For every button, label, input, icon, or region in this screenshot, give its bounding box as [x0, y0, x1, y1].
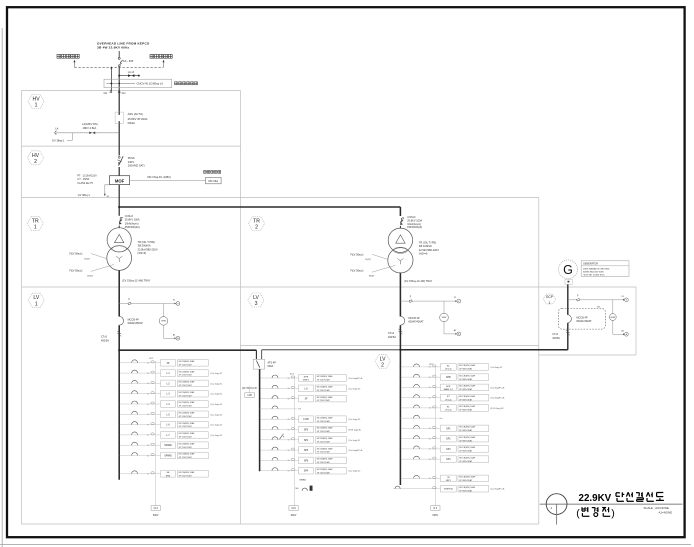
svg-text:MCCB(MS) 30AF: MCCB(MS) 30AF	[459, 476, 476, 479]
meter group GCP	[568, 295, 629, 336]
feeder LV2L row 6	[259, 426, 362, 433]
svg-text:DS&A: DS&A	[128, 121, 136, 125]
svg-text:4P 220V/15AT: 4P 220V/15AT	[179, 405, 193, 408]
svg-text:30: 30	[429, 377, 431, 379]
svg-text:F&V 38sq-1: F&V 38sq-1	[351, 253, 365, 256]
svg-text:2: 2	[381, 363, 384, 369]
svg-text:MCCB(MS) 30AF: MCCB(MS) 30AF	[179, 453, 196, 456]
svg-text:MCCB(MS) 30AF: MCCB(MS) 30AF	[317, 427, 334, 430]
feeder LV2L row 10	[259, 467, 361, 474]
svg-text:WHM: WHM	[611, 317, 616, 319]
section label TR1	[27, 216, 43, 230]
svg-text:30: 30	[429, 438, 431, 440]
svg-text:(F14 4sq) 4C: (F14 4sq) 4C	[349, 430, 362, 432]
svg-text:MCCB(MS) 30AF: MCCB(MS) 30AF	[317, 437, 334, 440]
svg-text:4P 220V/15AT: 4P 220V/15AT	[179, 374, 193, 377]
svg-text:30: 30	[429, 478, 431, 480]
fuse PF&S	[118, 156, 145, 168]
svg-text:E(1)T: E(1)T	[85, 258, 91, 260]
svg-text:MCCB(MS) 50AF: MCCB(MS) 50AF	[459, 456, 476, 459]
svg-text:(Cu 8sq) 4C: (Cu 8sq) 4C	[491, 367, 503, 369]
label TR2 secondary cable	[404, 280, 433, 283]
feeder LV2L row 8	[259, 447, 364, 454]
svg-text:MCCB(MS) 50AF: MCCB(MS) 50AF	[459, 374, 476, 377]
ground GV 38sq-1 HV1	[52, 133, 72, 143]
section label LV1	[28, 293, 44, 307]
label metering panel korean	[204, 171, 221, 174]
svg-text:25.8KV 100A: 25.8KV 100A	[125, 219, 140, 222]
svg-text:(Cu 4sq) 4C: (Cu 4sq) 4C	[349, 471, 361, 473]
svg-text:MCCB(MS) 30AF: MCCB(MS) 30AF	[179, 391, 196, 394]
svg-text:4P 380V/30AT: 4P 380V/30AT	[459, 388, 473, 391]
svg-text:(RB): (RB)	[166, 475, 171, 477]
breaker MCCB GCP	[558, 306, 605, 329]
svg-text:400/5A: 400/5A	[552, 337, 560, 340]
svg-text:MCCB 4P: MCCB 4P	[576, 316, 587, 319]
feeder LV2R row 6	[400, 415, 442, 418]
feeder LV2L row 7	[259, 437, 361, 444]
svg-text:LVB: LVB	[248, 395, 253, 397]
title text 22.9KV	[579, 493, 612, 504]
svg-text:(P-14): (P-14)	[445, 410, 451, 412]
svg-text:(F1.6 8sq) 4C: (F1.6 8sq) 4C	[491, 408, 505, 410]
svg-text:4P 380V/30AT: 4P 380V/30AT	[459, 368, 473, 371]
svg-text:EPB: EPB	[304, 376, 309, 378]
svg-text:30: 30	[429, 367, 431, 369]
svg-text:400/5A: 400/5A	[101, 339, 109, 342]
section label LV2	[375, 354, 390, 368]
CT LV3	[388, 329, 402, 339]
svg-text:2: 2	[34, 159, 37, 165]
svg-text:(Cu 4sq) 4C: (Cu 4sq) 4C	[211, 394, 223, 396]
title text hangul dansungyeolsundo	[616, 492, 664, 501]
svg-text:MCCB 4P: MCCB 4P	[128, 318, 139, 321]
CT LV1	[101, 331, 121, 343]
section label HV1	[28, 95, 44, 109]
svg-text:WHM: WHM	[442, 317, 447, 319]
svg-text:4P 380V/30AT: 4P 380V/30AT	[459, 450, 473, 453]
svg-text:*(D/G SET 150kW STD): *(D/G SET 150kW STD)	[583, 275, 605, 277]
label aerial cable korean	[175, 82, 198, 85]
label from LVB tray	[242, 386, 257, 397]
svg-text:MCCB(MS) 30AF: MCCB(MS) 30AF	[179, 432, 196, 435]
svg-text:4P 220V/20AT: 4P 220V/20AT	[317, 399, 331, 402]
feeder LV2R row 4	[400, 394, 506, 401]
svg-text:MCCB(MS) 30AF: MCCB(MS) 30AF	[317, 386, 334, 389]
svg-text:22.9kV/380-220V: 22.9kV/380-220V	[419, 248, 439, 252]
svg-text:(Cu 4sq) 4C: (Cu 4sq) 4C	[211, 425, 223, 427]
svg-text:(Cu 6sq)FC 4L: (Cu 6sq)FC 4L	[349, 450, 364, 452]
svg-text:3P: 3P	[167, 363, 170, 365]
svg-text:TR: TR	[32, 218, 39, 224]
feeder LV1 row 10	[119, 452, 209, 459]
wire main feeder TR2 column	[399, 226, 401, 485]
svg-text:SP3: SP3	[304, 430, 309, 432]
svg-text:MCCB(MS) 50AF: MCCB(MS) 50AF	[459, 395, 476, 398]
svg-text:MCCB(MS) 50AF: MCCB(MS) 50AF	[459, 486, 476, 489]
svg-text:F&V 38sq-1: F&V 38sq-1	[70, 253, 84, 256]
feeder LV2L row 4	[260, 406, 301, 409]
svg-text:3: 3	[255, 301, 258, 307]
label demarcation point right	[150, 54, 172, 58]
svg-text:30: 30	[147, 455, 149, 457]
feeder LV1 row 3	[119, 380, 223, 387]
svg-text:24KV: 24KV	[128, 160, 135, 164]
arrester LA 18KV branch	[54, 122, 118, 135]
svg-text:SPARE: SPARE	[164, 444, 172, 447]
svg-text:PF&S: PF&S	[128, 156, 135, 160]
wire main feeder TR1 column	[118, 92, 120, 350]
svg-text:MAIN 2-2: MAIN 2-2	[444, 388, 454, 391]
svg-text:GCP: GCP	[546, 295, 554, 299]
cable CNCV-W riser box	[104, 79, 172, 87]
svg-text:(Cu 8sq)FC 4L: (Cu 8sq)FC 4L	[491, 489, 506, 491]
svg-text:30: 30	[147, 383, 149, 385]
svg-text:MCCB 4P: MCCB 4P	[408, 317, 419, 320]
fuse COS TR2	[400, 216, 422, 229]
svg-text:JBP1: JBP1	[446, 480, 452, 482]
wire ZCT drop LV1	[151, 361, 160, 517]
svg-text:4P 220V/20AT: 4P 220V/20AT	[317, 471, 331, 474]
svg-text:CTx3: CTx3	[101, 336, 108, 339]
svg-text:TR: TR	[253, 219, 260, 225]
svg-text:SPARE: SPARE	[164, 455, 172, 458]
feeder LV1 row 6	[119, 411, 223, 418]
svg-text:22.9KV: 22.9KV	[579, 493, 612, 504]
feeder LV2L row 9	[259, 457, 346, 464]
svg-text:3Ø4W 380/220V 60Hz: 3Ø4W 380/220V 60Hz	[583, 271, 604, 273]
svg-text:3Ø 300kVA: 3Ø 300kVA	[138, 244, 151, 248]
feeder MGEN A row	[393, 485, 505, 492]
disconnect switch ASS	[115, 112, 148, 125]
label TR1 grounds	[70, 253, 115, 278]
svg-text:30: 30	[288, 460, 290, 462]
meter group LV3	[400, 297, 460, 336]
svg-text:LV: LV	[253, 295, 259, 301]
wire LV1 feeder bus	[118, 350, 120, 480]
svg-text:SPB: SPB	[446, 377, 451, 379]
svg-text:2: 2	[255, 225, 258, 231]
feeder LV2R row 5	[400, 405, 505, 412]
wire feeder branch to TR2	[118, 206, 400, 216]
metering outfit MOF	[110, 176, 130, 185]
transfer switch ATS	[253, 359, 276, 369]
ground MEBA symbol	[296, 479, 313, 491]
svg-text:E(1)T: E(1)T	[366, 259, 372, 261]
svg-text:MCCB(MS) 30AF: MCCB(MS) 30AF	[179, 422, 196, 425]
svg-text:MCCB(MS) 30AF: MCCB(MS) 30AF	[179, 412, 196, 415]
svg-text:SP5: SP5	[304, 450, 309, 452]
svg-text:MCCB(MS) 30AF: MCCB(MS) 30AF	[317, 416, 334, 419]
svg-text:30: 30	[429, 408, 431, 410]
wire main line upper	[118, 67, 120, 92]
busbar LV1	[118, 349, 256, 359]
svg-text:CNCV-W 1C/60sq x3: CNCV-W 1C/60sq x3	[137, 82, 164, 86]
svg-text:4P 380V/30AT: 4P 380V/30AT	[459, 429, 473, 432]
svg-text:600AF/400AT: 600AF/400AT	[408, 320, 424, 323]
svg-text:(Cu 4sq) 4C: (Cu 4sq) 4C	[211, 414, 223, 416]
svg-text:30: 30	[429, 449, 431, 451]
svg-text:3Ø 4W 22.9KV 60Hz: 3Ø 4W 22.9KV 60Hz	[97, 46, 130, 50]
label TR2 spec	[419, 241, 439, 256]
svg-text:4P 220V/15AT: 4P 220V/15AT	[179, 363, 193, 366]
fuse COS TR1	[119, 215, 140, 229]
svg-text:30: 30	[288, 471, 290, 473]
svg-text:MCCB(MS) 30AF: MCCB(MS) 30AF	[317, 468, 334, 471]
title block	[540, 494, 683, 525]
feeder LV1 row 1	[119, 360, 209, 367]
svg-text:30: 30	[147, 435, 149, 437]
generator G	[559, 260, 578, 285]
svg-text:(Cu 8sq)FC 4L: (Cu 8sq)FC 4L	[491, 398, 506, 400]
svg-text:MCCB(MS) 30AF: MCCB(MS) 30AF	[179, 442, 196, 445]
transformer TR2	[388, 228, 413, 273]
svg-text:ZCT: ZCT	[149, 358, 154, 360]
wire neutral line	[110, 66, 112, 91]
feeder LV2R row 8	[400, 435, 489, 442]
svg-text:LV: LV	[380, 356, 386, 362]
svg-text:30: 30	[147, 414, 149, 416]
svg-text:4P 220V/20AT: 4P 220V/20AT	[317, 461, 331, 464]
svg-text:1: 1	[548, 301, 550, 305]
svg-text:MCCB(MS) 50AF: MCCB(MS) 50AF	[459, 385, 476, 388]
svg-text:(Cu 6sq)FC 4L: (Cu 6sq)FC 4L	[349, 378, 364, 380]
svg-text:MOF: MOF	[115, 179, 125, 184]
svg-text:200AF(D SAT): 200AF(D SAT)	[128, 164, 145, 168]
busbar LV2 left	[259, 369, 261, 471]
svg-text:(Cu 4sq) 4C: (Cu 4sq) 4C	[211, 383, 223, 385]
svg-text:D/E/S RADIATOR GROUND: D/E/S RADIATOR GROUND	[583, 267, 610, 270]
svg-text:DM V&A: DM V&A	[209, 180, 219, 183]
svg-text:600A: 600A	[268, 365, 274, 368]
feeder LV2R row 7	[400, 425, 489, 432]
feeder LV2L row 3	[259, 395, 346, 402]
svg-text:MCCB(MS) 50AF: MCCB(MS) 50AF	[459, 436, 476, 439]
svg-text:600AF/400AT: 600AF/400AT	[576, 320, 592, 323]
svg-text:MCCB(MS) 50AF: MCCB(MS) 50AF	[459, 446, 476, 449]
svg-text:HV: HV	[32, 153, 40, 159]
svg-text:LV: LV	[33, 295, 39, 301]
svg-text:CT : 15/5A: CT : 15/5A	[77, 178, 89, 181]
svg-text:(3C TRAY) FR: (3C TRAY) FR	[242, 387, 257, 390]
breaker MCCB LV3 main	[400, 316, 424, 325]
svg-text:25.8KV 3P 200A: 25.8KV 3P 200A	[128, 117, 148, 121]
label MOF PT CT	[77, 174, 97, 185]
svg-text:30: 30	[147, 404, 149, 406]
svg-text:ZCT: ZCT	[429, 364, 434, 366]
svg-text:MCCB(MS) 50AF: MCCB(MS) 50AF	[459, 364, 476, 367]
svg-text:30: 30	[288, 388, 290, 390]
svg-text:ATS: ATS	[446, 385, 451, 388]
svg-text:CL9: CL9	[291, 508, 296, 510]
busbar generator/LV2	[262, 349, 568, 360]
section label LV3	[248, 293, 264, 307]
svg-text:30: 30	[288, 440, 290, 442]
svg-text:4P 220V/15AT: 4P 220V/15AT	[179, 394, 193, 397]
svg-text:4P 220V/15AT: 4P 220V/15AT	[179, 436, 193, 439]
svg-text:TR (OIL TYPE): TR (OIL TYPE)	[419, 241, 437, 245]
svg-text:4P 600V/50AT: 4P 600V/50AT	[179, 474, 193, 477]
wire service drop	[118, 51, 120, 57]
arrester LA x3	[118, 71, 140, 77]
svg-text:SCALE : A3=NONE: SCALE : A3=NONE	[644, 506, 669, 510]
svg-text:18KV 2.5kA: 18KV 2.5kA	[83, 126, 97, 130]
svg-text:600V: 600V	[433, 514, 439, 517]
svg-text:4P 220V/15AT: 4P 220V/15AT	[179, 415, 193, 418]
svg-text:LA x3: LA x3	[128, 71, 135, 74]
switch AS-605	[118, 57, 134, 66]
feeder LV1 row 7	[119, 421, 223, 428]
svg-text:LA(18KV DS): LA(18KV DS)	[82, 122, 98, 126]
svg-text:CH: CH	[122, 91, 126, 95]
svg-text:SP6: SP6	[304, 460, 309, 462]
feeder LV1 row 9	[119, 442, 209, 449]
svg-text:DM 3.5sq-FC-4(38C): DM 3.5sq-FC-4(38C)	[148, 176, 172, 179]
svg-text:(%Z=4): (%Z=4)	[419, 251, 428, 255]
svg-text:G: G	[563, 263, 573, 277]
svg-text:MCCB(MS) 30AF: MCCB(MS) 30AF	[317, 396, 334, 399]
wire ZCT drop LV2 left	[289, 376, 298, 517]
svg-text:30: 30	[288, 450, 290, 452]
svg-text:CH: CH	[104, 91, 108, 95]
svg-text:MCCB(MS) 30AF: MCCB(MS) 30AF	[317, 458, 334, 461]
svg-text:(CV 150sq-1C 4W) TRAY: (CV 150sq-1C 4W) TRAY	[122, 279, 151, 282]
svg-text:(Cu 4sq) 4C: (Cu 4sq) 4C	[349, 419, 361, 421]
label demarcation point left	[57, 54, 79, 58]
label TR1 spec	[138, 240, 158, 255]
svg-text:GV 38sq-1: GV 38sq-1	[52, 138, 65, 142]
svg-text:PT : 13.2kV/110V: PT : 13.2kV/110V	[77, 174, 97, 177]
svg-text:F&V 38sq-1: F&V 38sq-1	[351, 270, 365, 273]
svg-text:LA: LA	[55, 126, 58, 130]
svg-text:4P 380V/30AT: 4P 380V/30AT	[459, 398, 473, 401]
svg-text:30: 30	[429, 387, 431, 389]
node demarcation dashed line	[74, 60, 165, 68]
feeder LV2R row 2	[400, 374, 489, 381]
svg-text:MCCB(MS) 30AF: MCCB(MS) 30AF	[179, 370, 196, 373]
svg-text:): )	[611, 507, 615, 519]
feeder LV2R row 1	[400, 364, 503, 371]
svg-text:4P 380V/20AT: 4P 380V/20AT	[459, 479, 473, 482]
svg-text:SP1: SP1	[446, 428, 451, 430]
meter DM V&A box	[206, 178, 222, 184]
svg-text:4P 380V/30AT: 4P 380V/30AT	[459, 460, 473, 463]
svg-text:30: 30	[429, 397, 431, 399]
feeder LV2L row 5	[259, 416, 361, 423]
transformer TR1	[107, 228, 132, 271]
wire ZCT drop LV2 right	[431, 365, 440, 517]
section label GCP1	[543, 294, 556, 305]
svg-text:SPA: SPA	[304, 470, 309, 473]
ground GV 38sq-1 HV2	[78, 185, 110, 198]
svg-text:30: 30	[429, 459, 431, 461]
svg-text:MEBA: MEBA	[300, 479, 307, 482]
svg-text:CTx3: CTx3	[388, 332, 395, 335]
svg-text:(Cu 4sq) 4C: (Cu 4sq) 4C	[349, 440, 361, 442]
svg-text:PM/F200(2A): PM/F200(2A)	[125, 226, 140, 229]
svg-text:GENERATOR: GENERATOR	[583, 263, 598, 266]
svg-text:30: 30	[429, 428, 431, 430]
svg-text:(Cu 4sq) 4C: (Cu 4sq) 4C	[211, 373, 223, 375]
svg-text:CTx3: CTx3	[552, 333, 558, 336]
svg-text:E(2)T: E(2)T	[369, 275, 375, 277]
svg-text:1: 1	[35, 103, 38, 109]
svg-text:WHM: WHM	[161, 321, 166, 323]
feeder LV1 row 2	[119, 370, 223, 377]
svg-text:600V: 600V	[291, 514, 297, 517]
label scale	[644, 506, 673, 514]
svg-text:A1=NONE: A1=NONE	[659, 510, 673, 514]
section grid lines	[22, 91, 637, 525]
svg-text:30: 30	[147, 373, 149, 375]
svg-text:22.9kV/380-220V: 22.9kV/380-220V	[138, 247, 158, 251]
svg-text:TR (OIL TYPE): TR (OIL TYPE)	[138, 240, 156, 244]
svg-text:MCCB(MS) 30AF: MCCB(MS) 30AF	[179, 471, 196, 474]
svg-text:MCCB(MS) 30AF: MCCB(MS) 30AF	[179, 360, 196, 363]
svg-text:30: 30	[288, 419, 290, 421]
svg-text:ATS 4P: ATS 4P	[268, 361, 277, 364]
svg-text:400/5A: 400/5A	[388, 336, 396, 339]
svg-text:SP4: SP4	[446, 459, 451, 461]
svg-text:COSx3: COSx3	[125, 215, 134, 218]
svg-text:4P 220V/20AT: 4P 220V/20AT	[317, 451, 331, 454]
label TR2 grounds	[351, 253, 396, 277]
feeder LV1 row 8	[119, 432, 223, 439]
svg-text:30: 30	[288, 398, 290, 400]
svg-text:30: 30	[147, 445, 149, 447]
svg-text:10kA(Asym): 10kA(Asym)	[125, 222, 139, 225]
wire DM metering line	[130, 176, 206, 180]
svg-text:(CV 150sq-1C 4W) TRAY: (CV 150sq-1C 4W) TRAY	[404, 280, 433, 283]
svg-text:1: 1	[34, 225, 37, 231]
svg-text:SP4: SP4	[304, 440, 309, 442]
svg-text:MCCB(MS) 30AF: MCCB(MS) 30AF	[179, 401, 196, 404]
feeder LV2R row 3	[400, 384, 506, 391]
svg-text:PM/F200(2A): PM/F200(2A)	[407, 226, 422, 229]
breaker MCCB LV1 main	[119, 316, 143, 325]
svg-text:(Cu 8sq)FC 4L: (Cu 8sq)FC 4L	[491, 387, 506, 389]
feeder LV2L row 2	[259, 385, 361, 392]
svg-text:MGEN A: MGEN A	[444, 488, 453, 491]
svg-text:(P-14): (P-14)	[445, 399, 451, 401]
svg-text:4P 220V/15AT: 4P 220V/15AT	[179, 456, 193, 459]
svg-text:ASS (AUTO): ASS (AUTO)	[128, 112, 143, 116]
svg-text:F-DB: F-DB	[303, 419, 309, 421]
svg-text:MDF1: MDF1	[303, 380, 310, 382]
wire generator feeder	[567, 284, 569, 349]
svg-text:4P 220V/15AT: 4P 220V/15AT	[179, 384, 193, 387]
svg-text:30: 30	[147, 474, 149, 476]
feeder LV1 row 5	[119, 401, 223, 408]
feeder LV1 row 4	[119, 390, 223, 397]
svg-text:MCCB(MS) 50AF: MCCB(MS) 50AF	[459, 426, 476, 429]
svg-text:MCCB(MS) 50AF: MCCB(MS) 50AF	[459, 405, 476, 408]
svg-text:SP3: SP3	[446, 449, 451, 451]
title text (byeongyeongjeon)	[576, 507, 614, 519]
svg-text:30: 30	[147, 394, 149, 396]
svg-text:30: 30	[147, 363, 149, 365]
svg-text:4P 220V/20AT: 4P 220V/20AT	[317, 430, 331, 433]
svg-text:1: 1	[35, 301, 38, 307]
svg-text:(Cu 4sq) 4C: (Cu 4sq) 4C	[211, 435, 223, 437]
section label TR2	[248, 217, 264, 231]
svg-text:E(2)T: E(2)T	[88, 275, 94, 277]
svg-text:30: 30	[288, 378, 290, 380]
svg-text:HV: HV	[33, 97, 41, 103]
svg-text:4P 220V/20AT: 4P 220V/20AT	[317, 440, 331, 443]
label ZCT LV2 right	[429, 364, 434, 366]
svg-text:3Ø 100kVA: 3Ø 100kVA	[419, 244, 432, 248]
